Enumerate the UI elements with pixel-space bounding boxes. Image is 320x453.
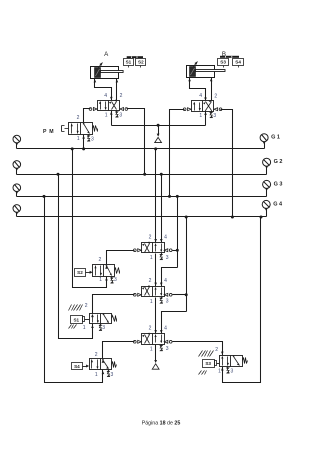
wire cyl A left port to valve A port 4 [95,79,112,101]
valve S1 3/2 limit switch (actuated) [90,314,112,324]
actuator plunger S1 [83,317,85,322]
valve V-A 5/2 [98,101,120,111]
left line connector 2 [13,161,21,169]
svg-text:2: 2 [99,257,102,263]
node supply junction [157,124,160,127]
cylinder B [187,66,215,78]
exhaust S3 port 3 [226,368,229,374]
wire V2 port 4 riser to V1 pilot net [162,268,178,287]
svg-text:2: 2 [95,352,98,358]
svg-text:2: 2 [149,234,152,240]
wire V1 port 2 to bus G1 [155,149,157,243]
pilot V3 right [169,340,172,343]
node V2 pilot on G4 [185,216,188,219]
exhaust S1 port 3 [99,325,102,331]
wire V2 right pilot branch [173,294,187,296]
svg-text:S2: S2 [77,270,83,275]
valve V-B 5/2 [192,101,214,112]
cascade valve V1 5/2 [142,243,165,253]
button actuator PM [65,128,69,130]
wire V1 port 1 to V2 port 2 [155,254,157,287]
connector G1 [260,134,268,142]
node valve B pilot on G4 [231,216,234,219]
svg-text:S3: S3 [205,361,211,366]
svg-text:1: 1 [218,369,221,375]
svg-text:G 1: G 1 [271,135,280,141]
node valve B pilot on G3 [168,195,171,198]
svg-text:4: 4 [164,326,167,332]
svg-text:3: 3 [91,136,94,142]
wire V3 port 4 riser to V2 pilot net [162,312,187,334]
node S2 supply on G1 [71,147,74,150]
wire S1 supply from bus G2 [59,175,93,339]
wire valve B right pilot to bus G4 [221,110,233,217]
node S1 supply on G2 [57,173,60,176]
wire S2 supply from bus G1 [73,149,107,288]
svg-text:2: 2 [149,326,152,332]
left line connector 1 [13,135,21,143]
node PM on G1 [82,147,85,150]
sensor ruler B [220,56,239,58]
svg-text:3: 3 [166,299,169,305]
svg-text:S4: S4 [74,364,80,369]
wire bus line G1 [17,148,265,150]
node S4 supply on G3 [43,195,46,198]
svg-text:Página 18 de 25: Página 18 de 25 [142,421,181,427]
sensor box S3 (cyl B) [218,59,229,66]
svg-text:1: 1 [150,299,153,305]
pilot V2 left [133,293,136,296]
wire V1 port 4 to bus G2 [161,175,163,243]
wire bus line G4 [17,216,267,218]
svg-text:3: 3 [102,325,105,331]
wire valve-A/valve-B supply line [112,125,206,127]
pilot valve A right [125,108,128,111]
wire S4 supply from bus G3 [45,197,103,383]
svg-text:4: 4 [199,93,202,99]
sensor ruler A [127,56,143,58]
label box S4 [72,363,83,370]
pilot V1 left [133,249,136,252]
svg-text:2: 2 [214,93,217,99]
pilot V2 right [169,293,172,296]
actuator plunger S3 [215,361,217,366]
pilot valve B right [219,108,222,111]
wire bus G3 to V1 right pilot riser [177,197,179,268]
connector G4 [262,200,270,208]
valve S2 3/2 limit switch [93,265,115,277]
node V1 port2 on G1 [154,147,157,150]
svg-text:2: 2 [85,303,88,309]
wire bus line G2 [17,174,267,176]
svg-text:3: 3 [166,346,169,352]
valve S4 3/2 limit switch [90,359,112,370]
svg-text:2: 2 [149,278,152,284]
label box S2 [75,269,86,277]
node V2 right pilot junction [185,293,188,296]
wire S1 output to V2 left pilot [93,295,135,314]
pilot valve A left [89,108,92,111]
svg-text:4: 4 [164,235,167,241]
svg-text:3: 3 [231,368,234,374]
hatching S1 mount upper [69,305,72,311]
svg-text:3: 3 [114,277,117,283]
node V1 right pilot junction [176,249,179,252]
wire V3 right pilot to S3 output [173,342,223,356]
wire S2 output to V1 left pilot [107,251,135,265]
svg-text:4: 4 [164,278,167,284]
label box S3 [203,360,215,368]
label box S1 [71,316,83,324]
wire cyl B left port to valve B port 4 [190,78,206,101]
pilot V3 left [133,340,136,343]
node V1 port4 on G2 [160,173,163,176]
node valve A pilot on G2 [143,173,146,176]
wire V3 port 1 exhaust drop [155,345,157,362]
left line connector 4 [13,205,21,213]
wire bus G4 to V2 right pilot riser [186,217,188,312]
wire valve B port 1 to supply line [205,111,207,126]
svg-text:1: 1 [150,346,153,352]
svg-text:1: 1 [77,136,80,142]
sensor box S4 (cyl B) [233,59,244,66]
svg-text:G 2: G 2 [274,159,283,165]
wire S3 supply from bus G4 [223,217,261,383]
exhaust S2 port 3 [110,278,113,284]
spring S1 [112,316,117,322]
node V1 pilot on G3 [176,195,179,198]
svg-text:S4: S4 [235,60,241,65]
svg-text:1: 1 [105,113,108,119]
svg-text:G 3: G 3 [274,181,283,187]
exhaust S4 port 3 [107,371,110,377]
wire PM port 1 to bus G1 [83,135,85,149]
spring S2 [115,268,120,274]
svg-text:1: 1 [83,325,86,331]
svg-text:4: 4 [104,93,107,99]
svg-text:1: 1 [199,113,202,119]
svg-text:3: 3 [119,113,122,119]
wire valve B left pilot to bus G3 [170,110,185,197]
wire bus line G3 [17,196,267,198]
svg-text:3: 3 [213,113,216,119]
svg-text:1: 1 [150,255,153,261]
svg-text:S3: S3 [220,60,226,65]
svg-text:S1: S1 [126,60,132,65]
cylinder A [91,67,119,79]
svg-text:2: 2 [77,115,80,121]
wire V2 port 1 to V3 port 2 [155,298,157,334]
connector G3 [263,180,271,188]
exhaust PM port 3 [87,136,90,142]
svg-text:1: 1 [95,372,98,378]
connector G2 [263,158,271,166]
svg-text:1: 1 [99,277,102,283]
exhaust/source symbol centre [158,126,160,136]
wire cyl B right port to valve B port 2 [211,78,213,101]
cascade valve V3 5/2 [142,334,165,345]
wire cyl A right port to valve A port 2 [116,79,118,101]
actuator pin S2 [86,272,92,274]
hatching S1 mount lower [69,325,72,329]
svg-text:G 4: G 4 [273,201,283,207]
svg-text:3: 3 [111,372,114,378]
wire V1 right pilot branch [173,250,178,252]
spring S4 [112,362,117,368]
wire valve A port 1 to supply line [111,111,113,126]
spring S3 [243,358,248,364]
svg-text:P M: P M [43,129,54,135]
exhaust valve B port 3 [210,112,213,118]
pilot V1 right [169,249,172,252]
svg-text:S2: S2 [138,60,144,65]
valve S3 3/2 limit switch (actuated) [220,356,243,367]
pilot valve B left [183,108,186,111]
wire S4 output to V3 left pilot [103,342,135,359]
node S3 supply on G4 [260,216,263,219]
svg-text:2: 2 [215,347,218,353]
exhaust valve A port 3 [115,112,118,118]
sensor box S1 (cyl A) [124,59,134,66]
exhaust V3 port 3 [160,345,163,351]
wire valve A right pilot to bus G2 [127,109,145,175]
actuator pin S4 [83,366,88,368]
svg-text:2: 2 [120,93,123,99]
svg-text:S1: S1 [73,317,79,322]
left line connector 3 [13,184,21,192]
wire PM output to valve A left pilot [84,109,91,123]
spring PM [93,126,98,132]
exhaust V2 port 3 [160,298,163,304]
sensor box S2 (cyl A) [136,59,146,66]
svg-text:3: 3 [166,255,169,261]
cascade valve V2 5/2 [142,287,165,297]
valve PM 3/2 push-button [69,123,93,135]
hatching S3 mount upper [199,351,203,357]
exhaust V1 port 3 [160,254,163,260]
hatching S3 mount lower [199,371,202,375]
